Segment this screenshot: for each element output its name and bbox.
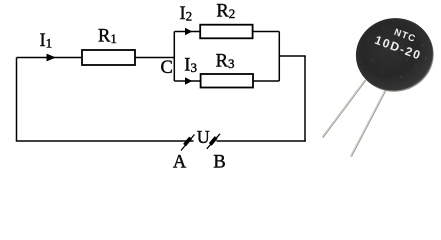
NTC thermistor photo: [322, 11, 440, 157]
svg-text:R1: R1: [98, 27, 117, 47]
svg-text:R2: R2: [216, 1, 235, 21]
svg-text:A: A: [173, 153, 187, 173]
resistor R2: [200, 25, 252, 39]
wire parallel right bar: [278, 32, 280, 82]
wire parallel left bar: [173, 32, 175, 82]
terminal A probe: [181, 135, 195, 151]
lead wire left: [323, 80, 366, 138]
svg-text:I3: I3: [184, 55, 197, 75]
svg-text:R3: R3: [216, 51, 235, 71]
current arrow I1: [47, 54, 56, 62]
svg-text:U: U: [197, 127, 210, 147]
resistor R1: [82, 50, 135, 65]
wire bottom right segment: [217, 140, 306, 142]
thermistor disc rim: [350, 12, 441, 99]
resistor R3: [201, 74, 253, 88]
wire output from parallel section: [279, 55, 305, 57]
current arrow I2: [185, 28, 192, 35]
thermistor disc body: [349, 11, 440, 98]
wire top branch: [174, 31, 279, 33]
wire left vertical: [16, 58, 18, 142]
terminal B probe: [207, 134, 220, 149]
disc speckles: [367, 21, 427, 78]
wire bottom branch: [174, 80, 279, 82]
lead wire right: [351, 84, 389, 157]
svg-text:C: C: [161, 58, 173, 78]
current arrow I3: [185, 77, 192, 84]
wire top horizontal: [17, 57, 175, 59]
wire right vertical: [304, 56, 306, 142]
svg-text:I1: I1: [40, 31, 53, 51]
svg-text:B: B: [213, 153, 225, 173]
svg-text:I2: I2: [180, 4, 193, 24]
wire bottom left segment: [16, 140, 194, 142]
